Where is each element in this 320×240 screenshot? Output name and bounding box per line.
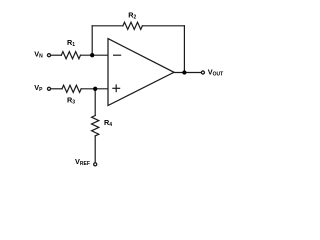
wire VN terminal to R1 bbox=[51, 54, 61, 56]
wire right vertical down to output node bbox=[183, 26, 185, 73]
resistor R1 bbox=[61, 52, 80, 59]
node C junction dot bbox=[93, 87, 97, 91]
wire op-amp output to VOUT terminal bbox=[174, 72, 201, 74]
op-amp inverting input minus sign bbox=[114, 54, 121, 56]
terminal VN bbox=[47, 54, 50, 57]
resistor R4 bbox=[92, 116, 99, 136]
terminal VOUT bbox=[201, 71, 204, 74]
wire R4 to VREF terminal bbox=[94, 136, 96, 163]
wire top rail left segment bbox=[92, 25, 123, 27]
terminal VP bbox=[47, 87, 50, 90]
wire VP terminal to R3 bbox=[51, 88, 62, 90]
resistor R3 bbox=[62, 85, 81, 92]
op-amp non-inverting input plus sign bbox=[113, 87, 120, 89]
node A junction dot bbox=[90, 53, 94, 57]
op-amp U1 bbox=[108, 39, 174, 106]
wire top rail right segment bbox=[142, 25, 184, 27]
wire node C down to R4 bbox=[94, 89, 96, 116]
node B output junction dot bbox=[182, 70, 186, 74]
wire R1 to node A and op-amp inverting input bbox=[81, 54, 109, 56]
resistor R2 bbox=[123, 22, 142, 29]
terminal VREF bbox=[94, 163, 97, 166]
wire node A up to feedback rail bbox=[91, 26, 93, 55]
wire R3 to node C and op-amp non-inverting input bbox=[81, 88, 108, 90]
